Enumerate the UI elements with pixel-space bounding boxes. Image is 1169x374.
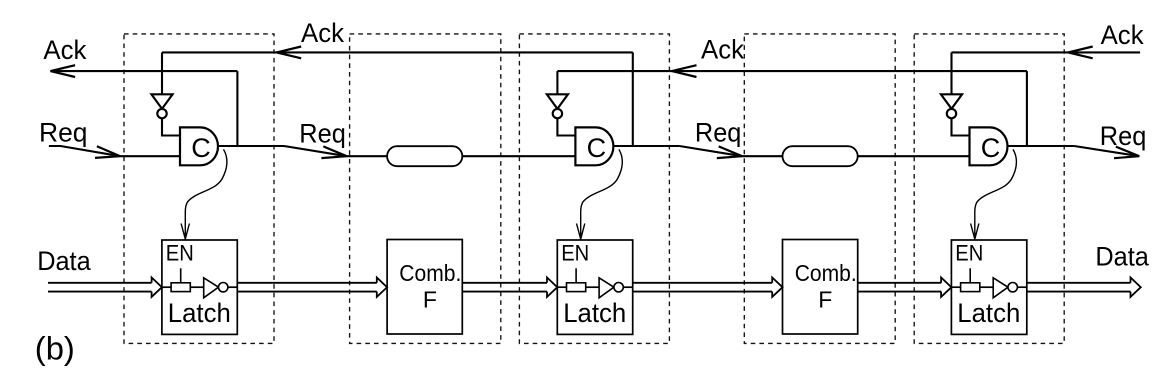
C-element U2 <box>575 127 613 165</box>
arrowhead Req input <box>95 146 120 158</box>
latch wire bubble-to-edge L1 <box>228 286 237 288</box>
arrowhead latch enable 1 <box>181 224 189 240</box>
wire Ack output (leftmost) <box>51 70 238 72</box>
svg-text:Ack: Ack <box>1101 20 1144 50</box>
latch wire bubble-to-edge L2 <box>623 286 632 288</box>
wire Req slant stage3 <box>1074 146 1139 156</box>
wire ack to inverter I3 <box>950 52 952 94</box>
latch inverter L3 <box>993 278 1008 298</box>
svg-text:F: F <box>818 286 832 312</box>
latch box L1 <box>162 240 237 334</box>
svg-text:Req: Req <box>299 118 346 148</box>
wire Req to delay D2 <box>742 155 783 157</box>
inverter bubble I3 <box>947 109 956 118</box>
svg-text:Req: Req <box>1100 121 1147 151</box>
latch box L3 <box>951 240 1026 334</box>
svg-text:Latch: Latch <box>168 298 231 328</box>
wire Ack stage3-to-stage2 <box>557 70 1027 72</box>
inverter I3 <box>941 94 962 109</box>
latch wire rect-to-inverter L3 <box>980 286 993 288</box>
bus arrowhead into F2 <box>772 278 782 297</box>
svg-text:(b): (b) <box>35 331 75 367</box>
wire data bus F2-to-latch3 <box>858 282 942 284</box>
bus arrowhead data output <box>1131 278 1141 297</box>
latch inverter L2 <box>599 278 614 298</box>
wire Req to delay D1 <box>347 155 388 157</box>
latch box L2 <box>557 240 632 334</box>
svg-text:EN: EN <box>166 240 194 265</box>
pass element rect L1 <box>171 283 190 292</box>
wire C output U1 <box>218 145 284 147</box>
bus arrowhead into latch L3 <box>941 278 951 297</box>
inverter bubble I2 <box>553 109 562 118</box>
svg-text:Latch: Latch <box>563 298 626 328</box>
arrowhead latch enable 2 <box>577 224 585 240</box>
bus arrowhead into latch L2 <box>547 278 557 297</box>
latch inverter bubble L1 <box>219 283 228 292</box>
wire inverter to C-element U3 <box>952 118 970 135</box>
wire C output to ack junction U3 <box>1026 71 1028 146</box>
latch wire edge-to-rect L2 <box>557 286 566 288</box>
latch inverter bubble L2 <box>614 283 623 292</box>
delay element D1 <box>387 146 462 166</box>
svg-text:Data: Data <box>37 246 91 276</box>
C-element U1 <box>180 127 218 165</box>
svg-text:C: C <box>587 133 607 163</box>
latch wire rect-to-inverter L2 <box>586 286 599 288</box>
inverter I1 <box>151 94 172 109</box>
wire Req slant stage2 <box>679 146 742 156</box>
svg-text:EN: EN <box>955 240 983 265</box>
wire Req slant stage1 <box>284 146 347 156</box>
wire C output to ack junction U2 <box>632 52 634 146</box>
enable stub wire L2 <box>575 268 577 283</box>
svg-text:EN: EN <box>561 240 589 265</box>
svg-text:F: F <box>423 286 437 312</box>
comb logic box F1 <box>387 240 462 335</box>
latch inverter L1 <box>204 278 219 298</box>
svg-text:Req: Req <box>695 118 742 148</box>
svg-text:Ack: Ack <box>701 34 744 64</box>
latch inverter bubble L3 <box>1008 283 1017 292</box>
arrowhead Ack stage3-to-stage2 <box>672 65 697 77</box>
dashed stage box S1 <box>124 34 274 344</box>
latch wire bubble-to-edge L3 <box>1017 286 1026 288</box>
arrowhead Req stage2 <box>717 146 742 158</box>
svg-text:Ack: Ack <box>301 18 344 48</box>
arrowhead Ack stage2-to-stage1 <box>277 47 302 59</box>
wire ack to inverter I1 <box>161 52 163 94</box>
latch wire edge-to-rect L3 <box>951 286 960 288</box>
wire C output to ack junction U1 <box>236 71 238 146</box>
svg-text:Ack: Ack <box>43 35 86 65</box>
pass element rect L3 <box>961 283 980 292</box>
arrowhead latch enable 3 <box>971 224 979 240</box>
latch wire edge-to-rect L1 <box>162 286 171 288</box>
curved wire C to latch enable 2 <box>581 149 623 237</box>
wire Ack input (rightmost) <box>952 51 1141 53</box>
enable stub wire L1 <box>180 268 182 283</box>
svg-text:Req: Req <box>39 117 88 147</box>
wire C output U2 <box>613 145 679 147</box>
comb logic box F2 <box>783 240 858 335</box>
wire inverter to C-element U2 <box>557 118 575 135</box>
wire data bus F1-to-latch2 <box>462 282 547 284</box>
wire ack to inverter I2 <box>556 71 558 94</box>
svg-text:Latch: Latch <box>957 298 1020 328</box>
wire data bus latch1-to-F1 <box>237 282 376 284</box>
inverter bubble I1 <box>157 109 166 118</box>
C-element U3 <box>970 127 1008 165</box>
pass element rect L2 <box>567 283 586 292</box>
svg-text:C: C <box>191 133 211 163</box>
wire data bus input <box>48 282 152 284</box>
delay element D2 <box>783 146 858 166</box>
arrowhead Req stage1 <box>321 146 346 158</box>
wire Req input <box>49 146 120 156</box>
svg-text:C: C <box>981 133 1001 163</box>
bus arrowhead into latch L1 <box>152 278 162 297</box>
arrowhead Req stage3 <box>1114 147 1139 159</box>
curved wire C to latch enable 1 <box>185 149 227 237</box>
svg-text:Data: Data <box>1095 242 1149 272</box>
wire Ack stage2-to-stage1 <box>162 51 633 53</box>
wire Req into C-element U1 <box>120 155 180 157</box>
dashed logic box F2 <box>744 34 895 344</box>
dashed stage box S3 <box>914 34 1064 344</box>
wire delay to C-element U3 <box>858 155 970 157</box>
wire C output U3 <box>1007 145 1074 147</box>
bus arrowhead into F1 <box>377 278 387 297</box>
arrowhead Ack input <box>1068 47 1093 59</box>
latch wire rect-to-inverter L1 <box>190 286 203 288</box>
dashed stage box S2 <box>519 34 669 344</box>
wire delay to C-element U2 <box>462 155 575 157</box>
enable stub wire L3 <box>969 268 971 283</box>
curved wire C to latch enable 3 <box>975 149 1017 237</box>
svg-text:Comb.: Comb. <box>399 260 461 286</box>
wire inverter to C-element U1 <box>162 118 180 135</box>
arrowhead Ack output <box>51 65 76 77</box>
wire data bus output <box>1027 282 1131 284</box>
dashed logic box F1 <box>350 34 501 344</box>
svg-text:Comb.: Comb. <box>795 260 857 286</box>
wire data bus latch2-to-F2 <box>633 282 773 284</box>
inverter I2 <box>547 94 568 109</box>
